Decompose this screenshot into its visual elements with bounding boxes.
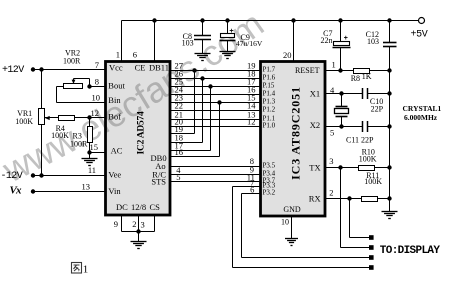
svg-text:DB11: DB11 (149, 63, 169, 73)
svg-text:P1.3: P1.3 (263, 98, 276, 106)
svg-text:GND: GND (283, 205, 301, 214)
svg-text:6: 6 (133, 50, 137, 60)
svg-text:Vee: Vee (108, 169, 121, 179)
svg-text:P3.2: P3.2 (263, 189, 276, 197)
svg-text:STS: STS (151, 176, 166, 186)
svg-text:Bin: Bin (108, 95, 121, 105)
svg-text:TX: TX (309, 163, 320, 173)
svg-text:1: 1 (116, 50, 120, 60)
svg-text:1: 1 (83, 264, 89, 276)
svg-text:-12V: -12V (1, 171, 23, 182)
svg-text:RX: RX (309, 194, 321, 204)
svg-text:100K: 100K (364, 177, 382, 186)
svg-text:CS: CS (150, 202, 161, 212)
svg-text:+5V: +5V (411, 29, 428, 40)
svg-text:2: 2 (132, 219, 136, 229)
svg-text:IC3 AT89C2051: IC3 AT89C2051 (289, 86, 303, 180)
svg-text:+12V: +12V (2, 65, 24, 76)
svg-text:CRYSTAL1: CRYSTAL1 (403, 104, 442, 113)
svg-text:RESET: RESET (295, 66, 320, 75)
svg-text:3: 3 (141, 220, 145, 230)
svg-text:100K: 100K (15, 117, 33, 126)
svg-text:10: 10 (92, 93, 101, 103)
svg-text:16: 16 (175, 147, 184, 157)
svg-text:C11 22P: C11 22P (346, 136, 374, 145)
svg-text:P1.7: P1.7 (263, 66, 276, 74)
svg-text:CE: CE (135, 63, 146, 73)
svg-text:12: 12 (91, 108, 100, 118)
svg-text:1K: 1K (362, 72, 372, 81)
svg-text:10: 10 (281, 218, 289, 227)
svg-text:Bof: Bof (108, 111, 121, 121)
svg-text:1: 1 (332, 60, 336, 70)
svg-text:100K: 100K (51, 131, 69, 140)
svg-text:15: 15 (90, 142, 99, 152)
svg-text:8: 8 (95, 77, 99, 87)
svg-text:6.000MHz: 6.000MHz (404, 113, 438, 122)
svg-text:100K: 100K (359, 155, 377, 164)
svg-text:103: 103 (182, 38, 194, 47)
svg-text:Bout: Bout (108, 80, 125, 90)
svg-text:11: 11 (88, 165, 96, 175)
svg-text:12: 12 (247, 117, 256, 127)
svg-text:P3.5: P3.5 (263, 162, 276, 170)
svg-text:2: 2 (329, 188, 333, 198)
svg-text:22n: 22n (321, 36, 333, 45)
svg-text:X2: X2 (310, 120, 320, 130)
svg-text:12/8: 12/8 (131, 202, 146, 212)
svg-text:X1: X1 (310, 88, 320, 98)
svg-text:AC: AC (111, 146, 123, 156)
svg-text:Vin: Vin (108, 186, 121, 196)
svg-text:5: 5 (176, 172, 180, 182)
svg-text:100R: 100R (63, 56, 81, 65)
svg-text:+: + (229, 28, 233, 35)
svg-text:103: 103 (367, 37, 379, 46)
svg-text:9: 9 (114, 219, 118, 229)
svg-text:P1.6: P1.6 (263, 74, 276, 82)
svg-text:22P: 22P (371, 105, 384, 114)
svg-text:20: 20 (283, 50, 292, 60)
svg-text:P1.0: P1.0 (263, 122, 276, 130)
svg-text:6: 6 (250, 185, 254, 195)
svg-text:P1.2: P1.2 (263, 106, 276, 114)
svg-text:P1.4: P1.4 (263, 90, 276, 98)
svg-text:13: 13 (82, 182, 91, 192)
svg-text:R8: R8 (351, 74, 360, 83)
svg-text:IC2 AD574: IC2 AD574 (137, 111, 147, 154)
svg-text:Vcc: Vcc (109, 63, 123, 73)
svg-text:P.15: P.15 (263, 82, 275, 90)
svg-text:47u/16V: 47u/16V (236, 39, 263, 48)
svg-text:+: + (344, 35, 348, 42)
svg-text:DC: DC (116, 202, 128, 212)
svg-text:7: 7 (95, 60, 99, 70)
svg-text:3: 3 (329, 156, 333, 166)
svg-text:5: 5 (330, 128, 334, 138)
svg-text:TO:DISPLAY: TO:DISPLAY (380, 245, 441, 257)
svg-text:100R: 100R (70, 140, 88, 149)
svg-text:Vx: Vx (10, 185, 23, 197)
